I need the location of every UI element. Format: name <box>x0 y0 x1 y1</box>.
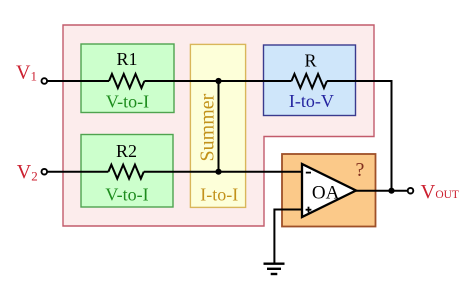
node output junction <box>388 188 394 194</box>
ground <box>264 264 285 274</box>
block R I-to-V converter (blue box) <box>264 45 356 116</box>
svg-text:VOUT: VOUT <box>421 181 459 203</box>
svg-text:R: R <box>304 51 316 71</box>
svg-text:V-to-I: V-to-I <box>105 185 148 205</box>
svg-text:OA: OA <box>312 182 340 203</box>
block R2 V-to-I converter (green box) <box>81 135 173 208</box>
terminal V2 <box>42 169 48 175</box>
op-amp non-inverting pin mark <box>306 207 312 213</box>
svg-text:V1: V1 <box>16 62 37 84</box>
block OA op-amp (orange box) <box>282 154 376 227</box>
op-amp inverting pin mark <box>306 172 311 174</box>
wire V1 input to R1 <box>47 80 109 82</box>
block R1 V-to-I converter (green box) <box>81 44 174 113</box>
wire R1 to summing node <box>144 80 291 82</box>
resistor R <box>292 74 327 88</box>
node summing junction top <box>215 78 221 84</box>
block Summer I-to-I (yellow box) <box>190 44 245 207</box>
op-amp U1 triangle <box>302 164 356 217</box>
svg-text:R1: R1 <box>116 49 137 69</box>
svg-text:I-to-I: I-to-I <box>200 185 238 205</box>
svg-text:V-to-I: V-to-I <box>106 91 149 111</box>
wire op-amp non-inverting input <box>274 210 302 263</box>
wire V2 input to R2 <box>47 171 108 173</box>
resistor R1 <box>109 74 144 88</box>
svg-text:V2: V2 <box>17 161 38 183</box>
system boundary box (pink L-shaped outline) <box>63 25 374 226</box>
node summing junction bottom <box>215 169 221 175</box>
wire R2 to op-amp inverting input <box>144 171 302 173</box>
wire op-amp output to VOUT <box>356 190 408 192</box>
terminal VOUT <box>408 188 414 194</box>
wire summing vertical (summer node) <box>218 81 220 172</box>
wire R output to feedback corner <box>327 81 392 191</box>
terminal V1 <box>42 78 48 84</box>
svg-text:?: ? <box>356 159 365 181</box>
svg-text:I-to-V: I-to-V <box>289 91 334 111</box>
resistor R2 <box>108 165 143 179</box>
svg-text:R2: R2 <box>116 141 137 161</box>
svg-text:Summer: Summer <box>197 93 219 161</box>
